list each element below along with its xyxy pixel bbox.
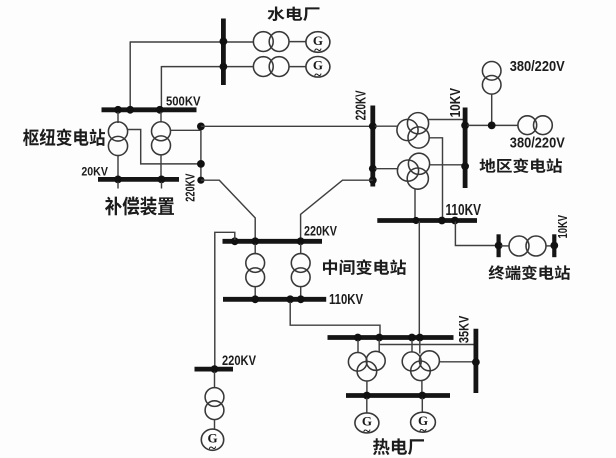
- label 10KV (regional, vertical): [448, 88, 464, 118]
- wire hydro T1 to G1: [289, 41, 306, 43]
- label 10KV (terminal, vertical): [555, 215, 570, 239]
- busbar 220KV generator branch: [195, 367, 234, 372]
- transformer hydro unit 1: [253, 32, 273, 52]
- busbar hydro plant: [221, 19, 226, 86]
- generator G2 hydro: [306, 57, 330, 78]
- node thermal 110KV d4: [416, 334, 424, 342]
- transformer thermal right (3-winding): [402, 352, 421, 371]
- busbar regional 10KV: [463, 108, 468, 189]
- transformer generator branch: [205, 388, 224, 407]
- node regional 10KV lower: [461, 162, 469, 170]
- node 20KV bus left: [114, 176, 122, 184]
- label 地区变电站 (regional substation): [480, 158, 563, 173]
- node 10KV feeder junction: [488, 122, 496, 130]
- wire terminal T right lead: [546, 245, 552, 247]
- wire thermal T1 lower lead: [366, 381, 368, 393]
- transformer hydro unit 2: [253, 57, 273, 77]
- wire 220KV generator feeder: [215, 232, 235, 366]
- transformer regional upper (3-winding): [407, 113, 428, 134]
- busbar 20KV: [98, 177, 179, 182]
- svg-text:380/220V: 380/220V: [510, 59, 565, 75]
- label 中间变电站 (intermediate substation): [323, 259, 406, 275]
- node thermal gen bus left: [363, 392, 371, 400]
- wire generator branch upper lead: [214, 372, 216, 388]
- busbar intermediate 110KV: [223, 297, 326, 302]
- wire distribution upper drop: [491, 94, 493, 123]
- wire 220KV tie hub to regional: [201, 125, 373, 127]
- wire hub 220KV riser: [200, 126, 202, 180]
- wire hub T-left tap: [128, 130, 201, 164]
- node regional 220KV middle: [369, 165, 377, 173]
- label 枢纽变电站 (hub substation): [23, 128, 105, 145]
- node 220KV generator branch: [211, 365, 219, 373]
- transformer distribution lower: [518, 116, 537, 135]
- wire terminal T left lead: [501, 245, 510, 247]
- wire hydro unit 1 to 500KV bus: [130, 41, 253, 43]
- busbar thermal 110KV: [328, 335, 454, 340]
- node 20KV bus right: [158, 176, 166, 184]
- wire regional T-lower primary: [375, 168, 399, 170]
- wire 220KV line hub to intermediate: [201, 180, 255, 241]
- wire regional T-upper primary: [375, 125, 398, 127]
- svg-text:~: ~: [314, 68, 322, 83]
- node hydro bus upper: [220, 38, 228, 46]
- label 补偿装置 (compensation device): [105, 196, 174, 215]
- node terminal left: [495, 242, 503, 250]
- node intermediate 110KV right: [297, 295, 305, 303]
- busbar terminal right (10KV): [552, 234, 556, 257]
- wire 110KV line regional to thermal: [418, 221, 420, 335]
- node thermal 110KV d2: [375, 334, 383, 342]
- wire regional T-lower 110KV side: [414, 189, 416, 218]
- svg-text:380/220V: 380/220V: [510, 136, 565, 152]
- node regional 220KV upper: [369, 122, 377, 130]
- svg-text:35KV: 35KV: [455, 315, 471, 343]
- wire 110KV line intermediate to thermal: [290, 302, 380, 336]
- svg-text:10KV: 10KV: [555, 215, 570, 239]
- wire generator branch lower lead: [214, 420, 216, 430]
- label 终端变电站 (terminal substation): [489, 265, 570, 280]
- busbar intermediate 220KV: [223, 239, 323, 244]
- transformer terminal: [509, 236, 529, 256]
- wire thermal T1 lead b: [378, 345, 380, 353]
- wire intermediate T2 lower lead: [300, 287, 302, 297]
- wire intermediate T1 upper lead: [254, 244, 256, 254]
- generator G4 thermal left: [355, 413, 379, 433]
- node thermal 110KV d1: [354, 334, 362, 342]
- wire 35KV tap from thermal bus: [379, 340, 473, 345]
- wire thermal T2 35KV tap: [439, 361, 473, 363]
- wire intermediate T2 upper lead: [300, 244, 302, 254]
- node hub riser lower: [197, 160, 205, 168]
- wire compensator stub right: [161, 182, 163, 189]
- svg-text:220KV: 220KV: [182, 173, 197, 201]
- label 热电厂 (thermal plant): [373, 438, 424, 455]
- node hydro bus lower: [220, 63, 228, 71]
- wire regional T-upper 10KV side: [428, 119, 464, 121]
- wire hydro line 1 vertical: [129, 41, 131, 108]
- node regional 110KV left: [412, 217, 419, 224]
- node hub riser corner: [197, 177, 204, 184]
- node intermediate 220KV middle: [251, 237, 259, 245]
- wire compensator stub left: [117, 182, 119, 189]
- transformer intermediate left: [246, 254, 265, 273]
- svg-text:220KV: 220KV: [222, 353, 256, 368]
- wire hub T-left to 20KV bus: [117, 155, 119, 177]
- node regional 110KV right: [451, 217, 459, 225]
- label 水电厂 (hydro plant): [268, 7, 320, 22]
- svg-text:110KV: 110KV: [329, 292, 363, 308]
- busbar regional 220KV: [370, 106, 375, 187]
- generator G3 (220KV branch): [201, 429, 223, 450]
- svg-text:~: ~: [363, 424, 371, 439]
- node 500KV bus right: [156, 106, 164, 114]
- node thermal gen bus right: [418, 392, 426, 400]
- busbar 500KV: [102, 107, 197, 112]
- wire hub T-left to 500KV bus: [117, 112, 119, 123]
- wire 110KV line to terminal: [455, 222, 496, 246]
- node 35KV bus: [472, 358, 480, 366]
- svg-text:500KV: 500KV: [166, 94, 201, 109]
- wire thermal T2 lead a: [411, 340, 413, 352]
- wire hydro line 2 vertical: [160, 66, 162, 108]
- node regional 10KV upper: [461, 122, 469, 130]
- wire hub T-right to 20KV bus: [160, 154, 162, 177]
- svg-text:220KV: 220KV: [304, 223, 338, 239]
- wire hub T-right to 500KV bus: [160, 112, 162, 123]
- transformer hub left: [108, 122, 127, 141]
- busbar regional 110KV: [377, 218, 477, 223]
- generator G1 hydro: [306, 32, 330, 53]
- wire thermal T2 lead b: [419, 340, 421, 354]
- wire regional T-upper 110KV side: [429, 138, 442, 219]
- wire thermal T1 lead a: [357, 340, 359, 353]
- wire thermal G1 lead: [366, 398, 368, 413]
- node hub riser upper: [197, 123, 205, 131]
- svg-text:~: ~: [209, 441, 217, 456]
- busbar 35KV: [473, 329, 478, 393]
- wire thermal G2 lead: [421, 398, 423, 412]
- node thermal 110KV d3: [408, 334, 416, 342]
- wire 220KV line regional to intermediate: [301, 180, 373, 241]
- svg-text:220KV: 220KV: [353, 90, 370, 120]
- node terminal right: [550, 242, 558, 250]
- svg-text:10KV: 10KV: [448, 88, 464, 118]
- node regional 110KV middle: [438, 217, 446, 225]
- node 500KV bus left: [114, 106, 122, 114]
- wire hydro T2 to G2: [289, 66, 306, 68]
- busbar thermal generator bus: [346, 393, 450, 398]
- wire hydro unit 2 horizontal: [161, 66, 253, 68]
- transformer regional lower (3-winding): [408, 153, 429, 174]
- svg-text:20KV: 20KV: [81, 165, 108, 179]
- wire regional T-lower 10KV side: [430, 164, 464, 166]
- node intermediate 110KV left: [251, 295, 259, 303]
- node 500KV bus middle: [126, 106, 134, 114]
- transformer thermal left (3-winding): [348, 353, 367, 372]
- wire 10KV feeder: [467, 124, 518, 126]
- transformer distribution upper: [482, 62, 501, 81]
- svg-text:~: ~: [419, 423, 427, 438]
- wire hub T-right tap: [170, 129, 201, 131]
- generator G5 thermal right: [411, 412, 436, 432]
- busbar terminal left: [497, 234, 501, 257]
- node intermediate 220KV left: [231, 237, 239, 245]
- transformer intermediate right: [291, 254, 310, 273]
- svg-text:110KV: 110KV: [446, 202, 482, 219]
- wire thermal T2 lower lead: [421, 381, 423, 394]
- label 220KV (regional bus, vertical): [353, 90, 370, 120]
- label 35KV (vertical): [455, 315, 471, 343]
- transformer hub right: [152, 122, 171, 141]
- node intermediate 110KV middle: [286, 295, 294, 303]
- node intermediate 220KV right: [297, 237, 305, 245]
- node regional 220KV lower: [369, 176, 377, 184]
- label 220KV (hub outgoing, vertical): [182, 173, 197, 201]
- wire intermediate T1 lower lead: [254, 287, 256, 297]
